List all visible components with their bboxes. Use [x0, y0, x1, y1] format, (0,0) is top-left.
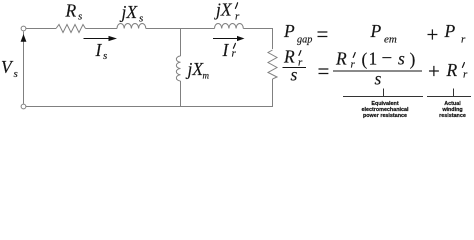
- svg-text:s: s: [78, 11, 82, 23]
- arrow I'r: [213, 38, 238, 40]
- svg-text:+: +: [427, 23, 439, 47]
- svg-text:P: P: [370, 21, 382, 41]
- svg-text:gap: gap: [297, 35, 312, 46]
- svg-text:R: R: [65, 1, 77, 21]
- terminal bottom-left circle: [21, 104, 26, 109]
- svg-text:=: =: [318, 59, 330, 83]
- svg-text:R: R: [335, 49, 347, 69]
- resistor Rs: [56, 25, 86, 33]
- svg-text:+: +: [428, 59, 440, 83]
- wire bottom rail: [26, 106, 273, 108]
- svg-text:s: s: [139, 13, 143, 25]
- node shunt branch top: [180, 29, 182, 57]
- inductor jX'r: [215, 24, 244, 29]
- svg-text:r: r: [351, 59, 356, 71]
- fraction bar RHS: [333, 70, 422, 72]
- wire shunt bottom: [180, 81, 182, 107]
- svg-text:m: m: [203, 71, 210, 81]
- wire jXr to corner: [243, 28, 273, 30]
- svg-text:r: r: [232, 48, 237, 60]
- svg-text:em: em: [384, 34, 397, 46]
- svg-text:I: I: [95, 40, 103, 60]
- wire jXs to jXr: [146, 28, 215, 30]
- svg-text:r: r: [298, 57, 303, 69]
- wire right rail top: [272, 29, 274, 50]
- svg-text:P: P: [283, 21, 295, 41]
- underbrace actual winding resistance: [427, 96, 471, 98]
- underbrace equivalent resistance: [343, 96, 423, 98]
- svg-text:s: s: [14, 68, 18, 80]
- svg-text:P: P: [444, 21, 456, 41]
- svg-text:r: r: [461, 34, 466, 46]
- svg-text:s: s: [103, 50, 107, 62]
- wire between Rs and jXs: [86, 28, 118, 30]
- wire top left segment: [26, 28, 56, 30]
- arrow Is: [84, 38, 111, 40]
- svg-text:power resistance: power resistance: [363, 113, 407, 119]
- arrow up on left rail: [21, 34, 27, 42]
- svg-text:r: r: [235, 11, 240, 23]
- svg-text:s: s: [375, 69, 382, 89]
- svg-text:): ): [410, 49, 416, 69]
- svg-text:jX: jX: [214, 0, 233, 20]
- svg-text:I: I: [222, 40, 230, 60]
- svg-text:resistance: resistance: [439, 113, 466, 119]
- svg-text:=: =: [317, 22, 329, 46]
- svg-text:1: 1: [369, 49, 378, 69]
- svg-text:s: s: [398, 49, 405, 69]
- svg-text:s: s: [291, 65, 298, 85]
- svg-text:R: R: [283, 47, 295, 67]
- inductor jXm: [176, 56, 180, 81]
- wire left rail: [23, 32, 25, 104]
- svg-text:r: r: [463, 69, 468, 81]
- terminal top-left circle: [21, 26, 26, 31]
- svg-text:R: R: [446, 60, 458, 80]
- svg-text:−: −: [382, 48, 393, 69]
- inductor jXs: [117, 24, 146, 29]
- svg-text:(: (: [362, 49, 368, 69]
- wire right rail bottom: [272, 79, 274, 107]
- resistor R'r/s vertical: [268, 50, 277, 79]
- svg-text:jX: jX: [120, 2, 139, 22]
